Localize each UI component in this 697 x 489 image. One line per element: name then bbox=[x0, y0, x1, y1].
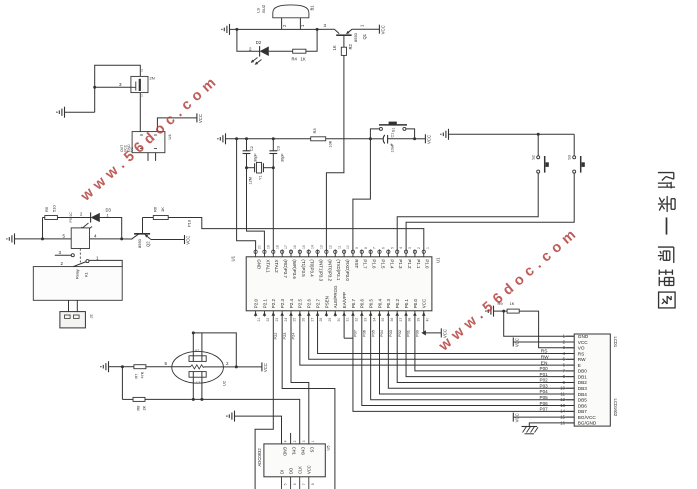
svg-text:ADC0832: ADC0832 bbox=[257, 448, 262, 467]
svg-text:12M: 12M bbox=[249, 177, 253, 184]
wire P0.5 to LCD DB5 bbox=[370, 317, 574, 400]
wire gnd to R9 bbox=[494, 310, 508, 312]
svg-text:PSEN: PSEN bbox=[324, 296, 329, 308]
svg-text:R8: R8 bbox=[137, 406, 141, 411]
wire LED to R4 bbox=[269, 50, 293, 52]
svg-text:R6: R6 bbox=[153, 206, 158, 212]
svg-text:(WR)P3.6: (WR)P3.6 bbox=[292, 259, 297, 279]
svg-text:P1.2: P1.2 bbox=[407, 259, 412, 269]
svg-text:2: 2 bbox=[417, 247, 421, 249]
svg-text:P0.6: P0.6 bbox=[360, 299, 365, 309]
svg-text:R4: R4 bbox=[292, 57, 298, 62]
svg-text:LCD1602: LCD1602 bbox=[613, 399, 618, 417]
svg-text:P05: P05 bbox=[370, 330, 375, 337]
node junction contrast bbox=[502, 310, 505, 313]
svg-text:1K: 1K bbox=[160, 207, 165, 212]
svg-text:31: 31 bbox=[346, 318, 350, 322]
svg-text:RS: RS bbox=[541, 349, 548, 355]
svg-text:R3: R3 bbox=[312, 128, 317, 134]
svg-text:DI: DI bbox=[279, 470, 284, 474]
wire R7 to sensor bbox=[146, 361, 191, 367]
ground (buttons) bbox=[440, 129, 448, 140]
svg-text:10: 10 bbox=[346, 245, 350, 249]
wire XTAL2 route bbox=[272, 168, 274, 251]
wire buttons rail bbox=[449, 133, 575, 135]
svg-text:P03: P03 bbox=[388, 330, 393, 337]
svg-text:DB2: DB2 bbox=[578, 380, 588, 385]
svg-text:P0.1: P0.1 bbox=[404, 299, 409, 309]
svg-text:23: 23 bbox=[275, 318, 279, 322]
svg-text:P24: P24 bbox=[291, 332, 296, 340]
svg-text:8550: 8550 bbox=[137, 238, 142, 248]
svg-text:D2: D2 bbox=[256, 40, 262, 45]
svg-text:P06: P06 bbox=[361, 330, 366, 337]
svg-text:CH0: CH0 bbox=[301, 447, 306, 456]
resistor R9 bbox=[498, 301, 520, 313]
svg-text:30pF: 30pF bbox=[254, 153, 258, 162]
svg-text:39: 39 bbox=[417, 318, 421, 322]
svg-text:40: 40 bbox=[425, 318, 429, 322]
svg-text:20: 20 bbox=[258, 245, 262, 249]
net label P07 bbox=[540, 407, 549, 412]
node junction S2 bbox=[537, 133, 540, 136]
svg-text:37: 37 bbox=[399, 318, 403, 322]
svg-text:U4: U4 bbox=[167, 134, 172, 140]
wire opto pin5 bbox=[43, 238, 72, 240]
svg-text:P04: P04 bbox=[540, 389, 549, 394]
svg-text:6: 6 bbox=[293, 483, 297, 485]
watermark 1 bbox=[77, 72, 223, 205]
svg-text:1K: 1K bbox=[510, 301, 515, 306]
resistor R8 bbox=[122, 397, 146, 410]
svg-text:P01: P01 bbox=[540, 372, 549, 377]
caption 附录一 原理图 bbox=[658, 173, 675, 308]
svg-text:30: 30 bbox=[337, 318, 341, 322]
wire VCC to pin15 bbox=[513, 416, 574, 418]
wire module stubs bbox=[148, 153, 156, 161]
svg-text:1K: 1K bbox=[332, 45, 337, 50]
ground (sensor) bbox=[100, 361, 108, 372]
wire xtal rail bbox=[226, 138, 311, 140]
wire rail to Q1 bbox=[317, 23, 334, 29]
svg-text:R7: R7 bbox=[135, 374, 139, 379]
svg-text:P0.4: P0.4 bbox=[377, 299, 382, 309]
svg-text:ALE/PROG: ALE/PROG bbox=[333, 285, 338, 308]
wire pin16 to earth bbox=[529, 423, 574, 427]
svg-text:P05: P05 bbox=[540, 395, 549, 400]
svg-text:w t: w t bbox=[195, 349, 199, 353]
svg-text:LS: LS bbox=[255, 8, 260, 13]
net label RS bbox=[541, 349, 548, 355]
power VCC (Q2) bbox=[185, 235, 191, 245]
wire gate bbox=[95, 82, 131, 88]
node junction LED branch bbox=[235, 28, 238, 31]
svg-text:P01: P01 bbox=[406, 330, 411, 337]
svg-text:Relay: Relay bbox=[76, 269, 80, 279]
IC U1 AT89C52 MCU bbox=[231, 245, 441, 321]
svg-text:10: 10 bbox=[560, 386, 565, 391]
svg-text:17: 17 bbox=[284, 245, 288, 249]
wire ADC CH1 stub bbox=[290, 433, 292, 444]
svg-text:(TXD)P3.1: (TXD)P3.1 bbox=[336, 259, 341, 280]
node junction opto in bbox=[41, 237, 44, 240]
power VCC (sensor) bbox=[262, 362, 268, 372]
svg-text:P0.0: P0.0 bbox=[413, 299, 418, 309]
wire P0.0 to LCD DB0 bbox=[415, 317, 575, 371]
wire rail to RST node bbox=[326, 138, 371, 140]
svg-text:C3: C3 bbox=[277, 146, 281, 151]
wire sensor rail to ADC CH0 bbox=[145, 399, 300, 444]
wire relay coil legs bbox=[69, 300, 78, 311]
terminal block J2 bbox=[60, 312, 94, 328]
node junction C1 right bbox=[413, 137, 416, 140]
wire P0.4 to LCD DB4 bbox=[379, 317, 574, 395]
node junction resistor branch bbox=[316, 28, 319, 31]
svg-text:VO: VO bbox=[578, 346, 585, 351]
svg-text:DB6: DB6 bbox=[578, 403, 588, 408]
wire GND pin route bbox=[237, 139, 256, 250]
svg-text:CH1: CH1 bbox=[291, 447, 296, 456]
svg-text:38: 38 bbox=[408, 318, 412, 322]
svg-text:U1: U1 bbox=[231, 255, 236, 261]
svg-text:LCD1: LCD1 bbox=[613, 337, 618, 348]
svg-text:19: 19 bbox=[266, 245, 270, 249]
svg-text:P2.0: P2.0 bbox=[254, 299, 259, 309]
svg-text:DB0: DB0 bbox=[578, 369, 588, 374]
wire ADC gnd bbox=[235, 416, 282, 444]
wire sensor plates bottom bbox=[192, 372, 204, 401]
svg-text:U2: U2 bbox=[222, 380, 227, 386]
svg-text:DB5: DB5 bbox=[578, 398, 588, 403]
optocoupler U3 bbox=[63, 228, 98, 249]
svg-text:EA/VPP: EA/VPP bbox=[342, 292, 347, 308]
power VCC (MCU pin40) bbox=[441, 328, 447, 338]
svg-text:R5: R5 bbox=[44, 206, 49, 212]
node junction sensor divider bbox=[121, 365, 124, 368]
buzzer B1 bbox=[255, 4, 314, 29]
svg-text:2N: 2N bbox=[150, 76, 155, 81]
node junction base bbox=[120, 237, 123, 240]
ground (buzzer rail) bbox=[221, 24, 229, 35]
wire R2 to P3.2 bbox=[326, 55, 344, 250]
ground (LCD contrast) bbox=[485, 306, 493, 317]
wire Q2 collector to R6 bbox=[143, 217, 154, 219]
svg-text:P04: P04 bbox=[379, 329, 384, 337]
svg-text:510: 510 bbox=[52, 205, 57, 212]
wire R9 to VO bbox=[519, 311, 574, 348]
svg-text:K1: K1 bbox=[84, 271, 89, 277]
wire P0.6 to LCD DB6 bbox=[361, 317, 574, 406]
svg-text:P07: P07 bbox=[353, 330, 358, 337]
svg-text:P00: P00 bbox=[415, 329, 420, 337]
svg-text:VCC: VCC bbox=[515, 413, 520, 422]
wire base bbox=[122, 238, 133, 240]
svg-text:B1: B1 bbox=[310, 5, 315, 11]
wire P0.3 to LCD DB3 bbox=[388, 317, 574, 389]
svg-text:P2.5: P2.5 bbox=[298, 299, 303, 309]
svg-text:13: 13 bbox=[320, 245, 324, 249]
svg-text:P1.6: P1.6 bbox=[372, 259, 377, 269]
wire VCC to pin2 bbox=[513, 341, 574, 343]
crystal Y1 bbox=[247, 162, 274, 184]
wire P2.7 to LCD RS bbox=[318, 317, 575, 354]
svg-text:P02: P02 bbox=[397, 330, 402, 337]
svg-text:P2.7: P2.7 bbox=[315, 299, 320, 309]
relay switch K1 bbox=[61, 256, 100, 267]
net label P01 bbox=[540, 372, 549, 377]
svg-text:C2: C2 bbox=[250, 146, 254, 151]
svg-text:3: 3 bbox=[302, 440, 306, 442]
svg-text:P521C: P521C bbox=[69, 212, 73, 223]
wire Q1 emitter to VCC bbox=[352, 24, 379, 29]
wire EA/P0.7 tie to LCD DB7 bbox=[344, 317, 574, 412]
svg-text:Y1: Y1 bbox=[259, 175, 263, 180]
wire gnd to LCD pin1 bbox=[504, 311, 575, 336]
svg-text:4: 4 bbox=[284, 440, 288, 442]
svg-text:4: 4 bbox=[399, 247, 403, 249]
svg-text:7: 7 bbox=[302, 483, 306, 485]
svg-text:1: 1 bbox=[426, 247, 430, 249]
svg-text:2K: 2K bbox=[143, 405, 147, 410]
svg-text:1K: 1K bbox=[301, 57, 306, 62]
svg-text:34: 34 bbox=[372, 318, 376, 322]
svg-text:(RXD)P3.0: (RXD)P3.0 bbox=[345, 259, 350, 281]
svg-text:26: 26 bbox=[301, 318, 305, 322]
wire LED branch down bbox=[237, 29, 260, 51]
wire XTAL1 route bbox=[247, 168, 265, 251]
wire divider down bbox=[121, 367, 123, 400]
dashed actuation link bbox=[79, 249, 81, 263]
svg-text:P2.4: P2.4 bbox=[289, 299, 294, 309]
svg-text:GND: GND bbox=[578, 334, 589, 339]
svg-text:P1.5: P1.5 bbox=[380, 259, 385, 269]
svg-text:E: E bbox=[578, 363, 581, 368]
svg-text:1: 1 bbox=[141, 94, 143, 98]
svg-text:3: 3 bbox=[408, 247, 412, 249]
node junction gnd-pin feed bbox=[235, 137, 238, 140]
svg-text:RW: RW bbox=[541, 355, 549, 361]
svg-text:P2.1: P2.1 bbox=[262, 299, 267, 309]
svg-text:CS: CS bbox=[310, 447, 315, 453]
net label P05 bbox=[540, 395, 549, 400]
svg-text:2: 2 bbox=[293, 440, 297, 442]
svg-text:P0.5: P0.5 bbox=[369, 299, 374, 309]
svg-text:P22: P22 bbox=[273, 333, 278, 340]
net label RW bbox=[541, 355, 549, 361]
svg-text:6: 6 bbox=[382, 247, 386, 249]
wire mosfet loop bbox=[65, 65, 141, 112]
svg-text:S2: S2 bbox=[532, 155, 536, 160]
svg-text:36: 36 bbox=[390, 318, 394, 322]
svg-text:P23: P23 bbox=[282, 333, 287, 340]
svg-text:VCC: VCC bbox=[515, 338, 520, 347]
svg-text:8: 8 bbox=[311, 483, 315, 485]
wire D3 down to opto out bbox=[100, 218, 122, 239]
svg-text:10K: 10K bbox=[329, 140, 333, 147]
wire opto pin4 bbox=[90, 238, 122, 240]
svg-text:(T0)P3.4: (T0)P3.4 bbox=[310, 259, 315, 277]
node junction gate bbox=[93, 86, 96, 89]
svg-text:30pF: 30pF bbox=[280, 153, 284, 162]
svg-text:P2.6: P2.6 bbox=[307, 299, 312, 309]
net label P06 bbox=[540, 401, 549, 406]
svg-text:8: 8 bbox=[364, 247, 368, 249]
net label EN bbox=[541, 360, 548, 366]
ground (opto) bbox=[6, 233, 14, 244]
wire sensor out to VCC bbox=[223, 365, 262, 368]
svg-text:8550: 8550 bbox=[353, 32, 358, 42]
transistor Q3 (MOSFET 2N) bbox=[131, 69, 155, 98]
earth ground (LCD backlight) bbox=[522, 427, 539, 434]
svg-text:(INT0)P3.2: (INT0)P3.2 bbox=[327, 259, 332, 281]
svg-text:25: 25 bbox=[293, 318, 297, 322]
svg-text:P2.3: P2.3 bbox=[280, 299, 285, 309]
svg-text:P0.3: P0.3 bbox=[386, 299, 391, 309]
capacitor C3 bbox=[269, 139, 284, 168]
svg-text:Q1: Q1 bbox=[362, 33, 367, 39]
wire RST route bbox=[353, 139, 371, 250]
power VCC (Q1) bbox=[379, 25, 385, 35]
svg-text:VCC: VCC bbox=[578, 340, 589, 345]
svg-text:DO: DO bbox=[288, 468, 293, 474]
svg-text:S3: S3 bbox=[568, 155, 572, 160]
resistor R4 bbox=[292, 49, 306, 61]
ground (MOSFET loop) bbox=[56, 107, 64, 118]
svg-text:29: 29 bbox=[328, 318, 332, 322]
LED D3 bbox=[91, 208, 112, 223]
wire P2.6 to LCD RW bbox=[309, 317, 575, 360]
svg-text:XTAL2: XTAL2 bbox=[274, 259, 279, 273]
power VCC (LCD backlight) bbox=[513, 413, 519, 423]
svg-text:P03: P03 bbox=[540, 383, 549, 388]
wire P2.4 to ADC CS bbox=[291, 317, 309, 444]
wire P2.5 to LCD EN bbox=[300, 317, 574, 366]
svg-text:R2: R2 bbox=[348, 43, 353, 49]
svg-text:27: 27 bbox=[310, 318, 314, 322]
wire R5 to D3 bbox=[57, 212, 90, 223]
gas sensor U2 body bbox=[172, 349, 229, 387]
svg-text:DB1: DB1 bbox=[578, 374, 588, 379]
svg-text:P1.3: P1.3 bbox=[398, 259, 403, 269]
wire net P10 to MCU P1.0 bbox=[168, 218, 424, 251]
opto light arrows bbox=[81, 223, 93, 233]
wire S2 to P1.3 bbox=[397, 173, 538, 250]
svg-text:47K: 47K bbox=[141, 371, 145, 378]
power VCC (reset) bbox=[425, 134, 431, 144]
svg-text:(INT1)P3.3: (INT1)P3.3 bbox=[318, 259, 323, 281]
svg-text:28: 28 bbox=[319, 318, 323, 322]
svg-text:VCC: VCC bbox=[427, 135, 432, 144]
svg-text:CLK: CLK bbox=[298, 466, 303, 474]
resistor R5 bbox=[44, 205, 57, 220]
svg-text:VCC: VCC bbox=[263, 363, 268, 372]
svg-text:XTAL1: XTAL1 bbox=[265, 259, 270, 273]
svg-text:DB4: DB4 bbox=[578, 392, 588, 397]
svg-text:35: 35 bbox=[381, 318, 385, 322]
node junction xtal left bbox=[245, 166, 248, 169]
wire sensor heater top bbox=[192, 331, 237, 367]
svg-text:32: 32 bbox=[355, 318, 359, 322]
svg-text:P1.4: P1.4 bbox=[389, 259, 394, 269]
svg-text:DB7: DB7 bbox=[578, 409, 588, 414]
switch S1 bbox=[370, 122, 414, 139]
svg-text:11: 11 bbox=[337, 245, 341, 249]
svg-text:VCC: VCC bbox=[198, 114, 203, 123]
svg-text:VCC: VCC bbox=[381, 25, 386, 34]
resistor R3 bbox=[311, 128, 333, 148]
svg-text:GND: GND bbox=[257, 259, 262, 269]
wire mosfet drain to module bbox=[139, 93, 141, 132]
relay K1 body bbox=[33, 267, 122, 301]
ground (ADC) bbox=[226, 411, 234, 422]
node junction RST bbox=[369, 137, 372, 140]
svg-text:P0.2: P0.2 bbox=[395, 299, 400, 309]
svg-text:VCC: VCC bbox=[422, 298, 427, 308]
svg-text:(T1)P3.5: (T1)P3.5 bbox=[301, 259, 306, 277]
svg-text:18: 18 bbox=[275, 245, 279, 249]
capacitor C1 bbox=[370, 133, 414, 153]
ground (xtal rail) bbox=[217, 133, 225, 144]
net label P03 bbox=[540, 383, 549, 388]
watermark 2 bbox=[435, 224, 583, 355]
svg-text:11: 11 bbox=[561, 391, 566, 396]
svg-text:DB3: DB3 bbox=[578, 386, 588, 391]
svg-text:15: 15 bbox=[302, 245, 306, 249]
svg-text:10uF: 10uF bbox=[391, 143, 395, 152]
svg-text:BUZ: BUZ bbox=[261, 4, 266, 13]
LED D2 bbox=[249, 40, 269, 65]
svg-text:RS: RS bbox=[578, 351, 585, 356]
push button S2 bbox=[532, 134, 549, 173]
svg-text:22: 22 bbox=[266, 318, 270, 322]
svg-text:1: 1 bbox=[311, 440, 315, 442]
wire Q2 emitter VCC bbox=[151, 239, 185, 241]
svg-text:12: 12 bbox=[328, 245, 332, 249]
resistor R7 bbox=[122, 365, 145, 379]
svg-text:24: 24 bbox=[284, 318, 288, 322]
svg-text:U1: U1 bbox=[436, 257, 441, 263]
wire relay pin1 bbox=[89, 260, 122, 266]
svg-text:33: 33 bbox=[363, 318, 367, 322]
svg-text:BG/GND: BG/GND bbox=[578, 421, 597, 426]
wire pin40 VCC bbox=[421, 317, 441, 336]
svg-text:VCC: VCC bbox=[307, 465, 312, 474]
adc U5 ADC0832 bbox=[257, 440, 331, 489]
svg-text:P00: P00 bbox=[540, 366, 549, 371]
svg-text:2: 2 bbox=[141, 69, 143, 73]
svg-text:RST: RST bbox=[354, 259, 359, 268]
transistor Q1 bbox=[334, 29, 367, 47]
svg-text:Q2: Q2 bbox=[146, 241, 151, 247]
wire P2.2 to ADC area bbox=[255, 317, 278, 489]
svg-text:P2.2: P2.2 bbox=[271, 299, 276, 309]
svg-text:S1: S1 bbox=[392, 128, 396, 133]
resistor R6 bbox=[153, 206, 169, 219]
net label P00 bbox=[540, 366, 549, 371]
svg-text:14: 14 bbox=[311, 245, 315, 249]
wire up to R5 bbox=[43, 218, 45, 239]
svg-text:GND: GND bbox=[282, 447, 287, 456]
wire P0.2 to LCD DB2 bbox=[397, 317, 574, 383]
svg-text:P1.7: P1.7 bbox=[363, 259, 368, 269]
svg-text:P0.7: P0.7 bbox=[351, 299, 356, 309]
svg-text:RW: RW bbox=[578, 357, 586, 362]
wire buzzer ground rail bbox=[230, 28, 318, 30]
svg-text:VCC: VCC bbox=[186, 236, 191, 245]
svg-text:BG/VCC: BG/VCC bbox=[578, 415, 597, 420]
node junction C3 top bbox=[272, 137, 275, 140]
wire sensor gnd bbox=[109, 366, 123, 368]
